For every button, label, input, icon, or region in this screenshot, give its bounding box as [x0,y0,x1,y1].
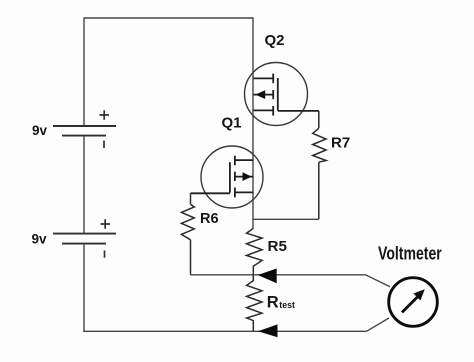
svg-text:Voltmeter: Voltmeter [378,244,442,264]
resistor R7 [313,111,326,219]
battery B2 [53,219,116,257]
svg-text:R5: R5 [268,238,288,255]
probe arrow lower [258,324,278,337]
voltmeter [389,278,438,327]
wire bottom [83,330,366,332]
svg-text:9v: 9v [32,232,48,247]
svg-text:R: R [267,294,279,312]
battery B1 [53,110,116,148]
svg-text:R7: R7 [331,135,350,152]
wire voltmeter bottom lead [367,318,390,331]
resistor Rtest [247,275,262,332]
transistor Q1 [191,146,264,208]
svg-text:R6: R6 [200,211,219,227]
wire left middle [83,136,85,234]
wire left lower [83,244,85,332]
svg-text:test: test [279,300,295,310]
resistor R5 [247,228,263,274]
probe arrow upper [258,269,277,284]
wire right vertical bus [252,17,254,228]
wire voltmeter top lead [191,275,391,287]
resistor R6 [181,193,194,274]
wire left upper [83,17,85,126]
transistor Q2 [245,63,319,126]
wire top [84,17,253,19]
svg-text:Q1: Q1 [222,115,242,132]
svg-text:Q2: Q2 [265,32,285,49]
svg-text:9v: 9v [32,123,48,138]
wire R7 bottom to bus [253,218,319,220]
